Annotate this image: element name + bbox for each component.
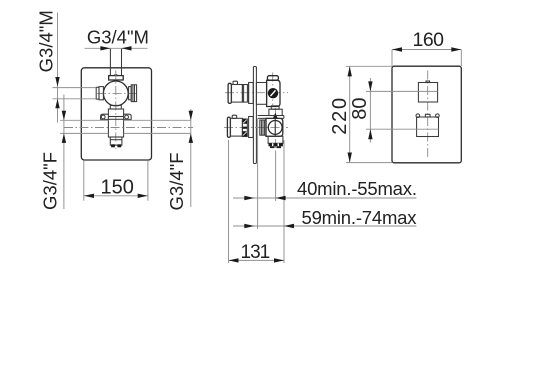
svg-text:G3/4"F: G3/4"F xyxy=(40,152,61,210)
svg-text:40min.-55max.: 40min.-55max. xyxy=(297,178,417,199)
svg-text:G3/4"F: G3/4"F xyxy=(166,153,187,211)
svg-text:131: 131 xyxy=(241,242,270,263)
svg-text:150: 150 xyxy=(101,177,134,199)
svg-text:220: 220 xyxy=(329,96,351,135)
svg-text:G3/4"M: G3/4"M xyxy=(87,26,149,47)
svg-text:160: 160 xyxy=(412,29,444,51)
svg-text:80: 80 xyxy=(349,97,371,119)
svg-text:G3/4"M: G3/4"M xyxy=(36,10,57,72)
svg-text:59min.-74max: 59min.-74max xyxy=(302,207,418,228)
